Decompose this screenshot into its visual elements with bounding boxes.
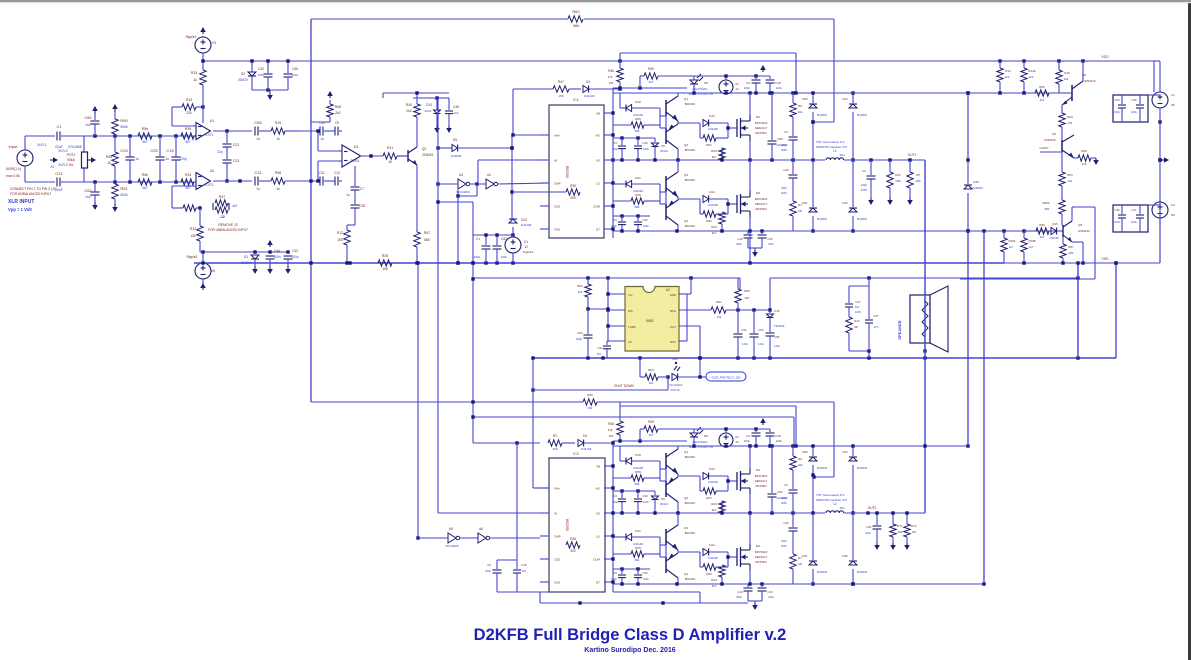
svg-text:1k: 1k	[276, 137, 280, 141]
svg-text:C62: C62	[84, 188, 92, 193]
svg-text:10n: 10n	[522, 569, 527, 573]
svg-text:2w: 2w	[69, 163, 74, 167]
capacitor C19s top	[736, 231, 752, 248]
wire out1	[844, 153, 925, 162]
svg-text:D15: D15	[774, 309, 780, 313]
wire x533 col	[531, 356, 549, 488]
svg-text:4k7: 4k7	[185, 140, 191, 144]
svg-text:100n: 100n	[744, 439, 751, 443]
svg-text:BD140C: BD140C	[685, 577, 696, 581]
wire rail88 top	[613, 86, 687, 89]
svg-text:40k: 40k	[578, 290, 583, 294]
svg-text:1N4148: 1N4148	[1049, 236, 1059, 240]
svg-text:BD139C: BD139C	[685, 531, 696, 535]
svg-text:IRFP4020: IRFP4020	[755, 474, 768, 478]
svg-text:R41: R41	[895, 173, 901, 177]
svg-text:R33: R33	[191, 71, 197, 75]
wire from input to U3	[300, 130, 318, 132]
svg-text:Q4: Q4	[684, 219, 688, 223]
svg-text:68k: 68k	[635, 129, 640, 133]
resistor R47 box	[208, 195, 248, 232]
wire rail93 right	[834, 91, 1063, 94]
wire Q1Q2 join bot	[660, 446, 700, 513]
svg-text:R5: R5	[916, 173, 920, 177]
svg-text:D8: D8	[704, 434, 708, 438]
resistor R12	[337, 225, 355, 263]
resistor R19	[259, 121, 300, 141]
resistor R72f	[904, 511, 917, 550]
svg-text:1N4148: 1N4148	[708, 480, 718, 484]
svg-text:C25: C25	[150, 148, 158, 153]
svg-text:U2: U2	[210, 169, 215, 173]
wire rail 252	[200, 250, 290, 253]
diode D31s bot	[613, 529, 660, 546]
svg-text:1k: 1k	[388, 160, 392, 164]
svg-text:150: 150	[337, 238, 343, 242]
resistor R33	[191, 61, 206, 123]
svg-text:C31: C31	[254, 170, 262, 175]
resistor R71f	[890, 511, 903, 550]
svg-text:2N3904C: 2N3904C	[1044, 138, 1056, 142]
capacitor C3s bot	[612, 491, 626, 513]
svg-text:R19: R19	[275, 121, 281, 125]
svg-text:D1: D1	[244, 255, 248, 259]
svg-text:10u: 10u	[855, 305, 860, 309]
caps C22 C23	[217, 131, 239, 183]
capacitor C4s top	[781, 130, 798, 160]
svg-text:C55: C55	[775, 335, 780, 339]
svg-text:MUR460: MUR460	[857, 113, 868, 117]
transistor Q2 pnp top	[666, 124, 695, 152]
svg-text:F2: F2	[1171, 203, 1175, 207]
resistor R61c	[679, 300, 772, 319]
capacitor C5s bot	[611, 569, 626, 584]
svg-text:4k7: 4k7	[712, 508, 717, 512]
svg-text:C30: C30	[642, 571, 648, 575]
svg-text:400u: 400u	[736, 595, 742, 599]
wire C21 right	[61, 168, 84, 182]
resistor R44s bot	[711, 565, 725, 588]
svg-text:FOR UNBALANCED INPUT: FOR UNBALANCED INPUT	[208, 228, 248, 232]
svg-text:TRIG: TRIG	[669, 309, 676, 313]
resistor R46 mid	[106, 136, 118, 182]
source XLR input	[6, 136, 33, 182]
svg-text:C49: C49	[642, 494, 648, 498]
svg-text:R6: R6	[798, 104, 802, 108]
ic U5 IRS2092 bot	[549, 452, 605, 592]
diode D16s bot	[620, 446, 660, 470]
svg-text:V2: V2	[735, 82, 739, 86]
svg-text:C19: C19	[737, 590, 743, 594]
svg-text:1u: 1u	[346, 193, 350, 197]
svg-text:U3: U3	[354, 145, 359, 149]
wire x473 corner	[471, 235, 794, 446]
svg-text:43k: 43k	[1068, 121, 1073, 125]
caps C7 C28 fb	[346, 166, 365, 225]
svg-text:IRFP4020: IRFP4020	[755, 121, 768, 125]
svg-text:300: 300	[570, 549, 576, 553]
led D8 bootstrap top	[689, 74, 713, 96]
svg-text:47k: 47k	[608, 428, 613, 432]
source V2s bot	[719, 429, 739, 447]
svg-text:IRFP4020: IRFP4020	[755, 197, 768, 201]
svg-text:FOR UNBALANCED INPUT: FOR UNBALANCED INPUT	[10, 192, 51, 196]
wire gate M2 bot	[726, 552, 737, 567]
svg-text:CSD: CSD	[554, 205, 561, 209]
capacitor C25	[150, 136, 169, 182]
svg-text:VB: VB	[596, 465, 600, 469]
svg-text:1u: 1u	[135, 157, 139, 161]
capacitor C60	[84, 106, 99, 136]
op-amp U1a	[194, 119, 214, 140]
svg-text:12: 12	[524, 245, 528, 249]
ic U4 left pin VSS	[540, 228, 560, 232]
svg-text:MUR460: MUR460	[857, 466, 868, 470]
svg-text:500k: 500k	[120, 125, 128, 129]
svg-text:C57: C57	[873, 314, 879, 318]
svg-text:6R8/2706 (newbie) 4h7: 6R8/2706 (newbie) 4h7	[816, 498, 848, 502]
svg-text:R14A: R14A	[1028, 69, 1036, 73]
ic U5 left pin VAA	[540, 487, 560, 491]
op-amp U1b	[196, 169, 214, 190]
svg-text:C15: C15	[166, 148, 174, 153]
diode D14s top	[703, 190, 728, 207]
svg-text:CSD: CSD	[554, 558, 561, 562]
svg-text:100n: 100n	[258, 73, 265, 77]
wire x418 down	[416, 261, 419, 539]
wire x796 drop	[618, 53, 796, 93]
feedback loop b	[172, 186, 202, 211]
capacitor C43	[284, 249, 299, 274]
mosfet M1 top	[737, 115, 768, 141]
svg-text:D43: D43	[672, 357, 678, 361]
resistor R50r	[1035, 85, 1049, 102]
svg-text:RST: RST	[670, 340, 676, 344]
resistor R64c	[640, 358, 670, 385]
svg-text:D50: D50	[802, 97, 808, 101]
svg-text:C23: C23	[233, 159, 239, 163]
svg-text:C3: C3	[613, 141, 617, 145]
wire rail93 bot	[613, 444, 853, 447]
svg-text:20dV: 20dV	[424, 109, 431, 113]
diode D16s top	[620, 93, 660, 117]
svg-text:220n: 220n	[861, 183, 868, 187]
svg-text:V2: V2	[735, 435, 739, 439]
resistor R12sp	[846, 317, 860, 351]
svg-text:D12: D12	[521, 218, 527, 222]
source V2s top	[719, 76, 739, 94]
svg-text:10n: 10n	[597, 352, 602, 356]
svg-text:SPEAKER: SPEAKER	[897, 320, 902, 339]
svg-text:2N5401: 2N5401	[422, 153, 433, 157]
svg-text:680: 680	[424, 238, 430, 242]
svg-text:OUT1: OUT1	[908, 153, 917, 157]
svg-text:D4: D4	[586, 80, 590, 84]
svg-text:R65: R65	[587, 393, 593, 397]
svg-text:220n: 220n	[781, 539, 787, 543]
source F1	[1148, 61, 1175, 124]
resistor R61r	[1059, 172, 1073, 200]
diode column x813 bot	[802, 444, 827, 585]
svg-text:R67: R67	[424, 231, 430, 235]
svg-text:4k7: 4k7	[1009, 245, 1014, 249]
svg-text:R47: R47	[219, 195, 225, 199]
svg-text:68k: 68k	[635, 482, 640, 486]
svg-text:C44: C44	[274, 249, 280, 253]
svg-text:VSS: VSS	[554, 228, 560, 232]
svg-text:8R: 8R	[854, 325, 857, 329]
capacitor C52s bot	[768, 446, 788, 513]
svg-text:R16: R16	[1064, 71, 1070, 75]
capacitor C13 out	[861, 160, 876, 205]
transistor Q4 pnp top	[666, 200, 695, 228]
resistor R59	[1074, 149, 1099, 166]
capacitor C30s bot	[634, 569, 649, 584]
svg-text:CMP: CMP	[554, 535, 561, 539]
resistor R52s bot	[700, 552, 728, 576]
svg-text:400V: 400V	[781, 501, 787, 505]
resistor R56s bot	[613, 470, 660, 486]
svg-text:R20A: R20A	[1009, 239, 1016, 243]
svg-text:DEFAULT: DEFAULT	[755, 126, 768, 130]
wire left tall vertical	[310, 19, 312, 402]
wire rail90	[252, 88, 288, 91]
svg-text:D44: D44	[842, 450, 848, 454]
svg-text:R45: R45	[635, 193, 641, 197]
svg-text:R55: R55	[744, 289, 750, 293]
svg-text:2W: 2W	[609, 434, 614, 438]
wire y138 stub top	[613, 136, 655, 139]
svg-text:BD139C: BD139C	[685, 455, 696, 459]
speaker SP1	[897, 286, 948, 353]
ic U4 left pin VAA	[540, 134, 560, 138]
wire row160 left	[478, 160, 549, 184]
svg-text:1u: 1u	[256, 187, 260, 191]
svg-text:C46: C46	[783, 521, 789, 525]
svg-text:D6: D6	[661, 144, 665, 148]
svg-text:M2: M2	[756, 191, 760, 195]
svg-text:R31: R31	[387, 146, 393, 150]
inverter A6	[478, 527, 540, 543]
svg-text:MC14069: MC14069	[445, 544, 458, 548]
ic U5 right pin DT	[596, 581, 613, 585]
svg-text:C20: C20	[767, 237, 773, 241]
capacitor C52c	[734, 310, 749, 358]
transistor Q8 npn	[1062, 221, 1090, 242]
ic U5 left pin IN	[540, 512, 557, 516]
svg-text:6R8/2706 (newbie) 4h7: 6R8/2706 (newbie) 4h7	[816, 145, 848, 149]
wire rail278 A	[473, 276, 740, 289]
svg-text:C52: C52	[777, 490, 783, 494]
svg-text:220n: 220n	[768, 242, 774, 246]
svg-text:4k7: 4k7	[649, 80, 654, 84]
svg-text:F1: F1	[1171, 93, 1175, 97]
svg-text:Q1: Q1	[684, 450, 688, 454]
svg-text:C47: C47	[855, 300, 861, 304]
svg-text:R64: R64	[648, 368, 654, 372]
svg-text:IRFP064: IRFP064	[755, 484, 766, 488]
svg-text:140p: 140p	[774, 344, 780, 348]
svg-text:D31: D31	[635, 176, 641, 180]
resistor R6s bot	[790, 446, 803, 489]
wire rail160 bot	[613, 511, 825, 514]
mosfet M1 bot	[737, 468, 768, 494]
svg-text:A6: A6	[479, 527, 483, 531]
svg-text:100V: 100V	[855, 310, 861, 314]
capacitor C4s bot	[781, 483, 798, 513]
power arrow caps top	[760, 65, 766, 72]
op-amp U3	[338, 145, 361, 167]
ic U4 left pin CMP	[540, 182, 561, 186]
svg-text:220n: 220n	[776, 86, 783, 90]
svg-text:VAA: VAA	[554, 134, 560, 138]
svg-text:R52: R52	[706, 572, 712, 576]
svg-text:ZD123: ZD123	[660, 502, 668, 506]
svg-text:36k: 36k	[573, 23, 579, 28]
wire x512 column	[510, 135, 566, 219]
capacitor C30s top	[634, 216, 649, 231]
wire 555 gnd pin	[679, 278, 691, 341]
wire x968 bottom col	[967, 231, 969, 446]
svg-text:OUT2: OUT2	[868, 506, 877, 510]
opto led D41	[669, 357, 703, 392]
wire U3 out	[360, 154, 383, 157]
svg-text:D5: D5	[453, 138, 457, 142]
svg-text:M1: M1	[756, 468, 760, 472]
svg-text:IRS2092: IRS2092	[565, 166, 569, 179]
wire rail278 B	[770, 276, 1080, 310]
svg-text:D31: D31	[635, 529, 641, 533]
svg-text:300: 300	[570, 196, 576, 200]
svg-text:12: 12	[735, 440, 739, 444]
svg-text:4k7: 4k7	[1029, 245, 1034, 249]
svg-text:VS: VS	[596, 512, 600, 516]
resistor R43s top	[711, 148, 725, 160]
svg-text:1N4148: 1N4148	[708, 556, 718, 560]
ic U5 left pin CMP	[540, 535, 561, 539]
source V5 bottom	[187, 252, 216, 290]
resistor R67	[414, 231, 430, 263]
diode D4b	[578, 434, 615, 451]
svg-text:C43: C43	[292, 249, 298, 253]
cap C48 cluster	[413, 96, 459, 133]
ic U2 555 yellow	[625, 287, 679, 352]
svg-text:10k: 10k	[190, 234, 196, 238]
svg-text:R6: R6	[798, 457, 802, 461]
wire ic2 col x613	[611, 441, 614, 592]
capacitor C57sp	[865, 286, 879, 351]
svg-text:DIS: DIS	[628, 309, 633, 313]
svg-text:D15: D15	[1052, 222, 1058, 226]
wire gate M1 bot	[726, 476, 737, 491]
svg-text:R46: R46	[106, 155, 112, 159]
svg-text:C5: C5	[613, 571, 617, 575]
svg-text:C36: C36	[1131, 98, 1137, 102]
resistor R5b	[138, 127, 152, 144]
capacitor C53c	[750, 310, 765, 358]
svg-text:R20B: R20B	[1029, 239, 1036, 243]
wire M2 drain top	[749, 160, 751, 191]
svg-text:R59: R59	[1081, 149, 1087, 153]
svg-text:1n2: 1n2	[85, 123, 91, 127]
wire inv feedback	[456, 184, 477, 265]
capacitor C11m	[319, 171, 325, 186]
wire Q8 collector loop	[960, 207, 1095, 279]
capacitor C49s top	[634, 138, 649, 160]
svg-text:XLR-1: XLR-1	[37, 143, 47, 147]
wire rail231 top	[613, 229, 853, 232]
svg-text:Q2: Q2	[422, 147, 427, 151]
svg-text:22p: 22p	[453, 111, 458, 115]
svg-text:Ripple1: Ripple1	[186, 35, 197, 39]
wire F1 down	[1158, 122, 1161, 263]
svg-text:C2: C2	[746, 434, 750, 438]
ic U4 right pin HO	[596, 134, 614, 138]
svg-text:D13: D13	[426, 103, 432, 107]
resistor R31	[383, 146, 397, 164]
resistor R26	[378, 254, 392, 271]
svg-text:REMOVE J2: REMOVE J2	[218, 223, 237, 227]
resistor R35b on ic	[566, 537, 580, 553]
svg-text:100p: 100p	[474, 255, 481, 259]
svg-text:1N4148: 1N4148	[521, 223, 532, 227]
svg-text:BD139C: BD139C	[685, 102, 696, 106]
resistor R16	[1056, 61, 1070, 93]
resistor R50	[112, 104, 129, 136]
wire top bus	[311, 18, 834, 20]
svg-text:VB: VB	[596, 112, 600, 116]
capacitor C46s top	[781, 160, 798, 201]
svg-text:220n: 220n	[865, 531, 871, 535]
resistor R34i	[181, 173, 194, 190]
svg-text:IC1: IC1	[573, 98, 578, 102]
capacitor C31	[254, 170, 262, 191]
capacitor C62	[493, 235, 508, 263]
svg-text:R14: R14	[1005, 69, 1011, 73]
svg-text:OC-MOAC: OC-MOAC	[669, 383, 683, 387]
resistor R7s top	[790, 201, 803, 231]
wire x1078	[1076, 261, 1079, 358]
wire Q3Q4 join top	[660, 160, 700, 231]
svg-text:VDD: VDD	[1101, 55, 1109, 59]
wire opamp2 out	[213, 179, 252, 182]
svg-text:220u: 220u	[1131, 110, 1137, 114]
source V3 top	[186, 27, 217, 61]
svg-text:C1: C1	[476, 237, 480, 241]
svg-text:100p: 100p	[485, 569, 491, 573]
svg-text:D46: D46	[973, 180, 979, 184]
svg-text:BD140C: BD140C	[685, 224, 696, 228]
svg-text:36k: 36k	[588, 406, 593, 410]
wire M1 source top	[749, 141, 751, 160]
svg-text:C28: C28	[359, 204, 365, 208]
wire gate M2 top	[726, 199, 737, 214]
svg-text:10k: 10k	[798, 463, 803, 467]
svg-text:C51: C51	[577, 331, 583, 335]
svg-text:C49: C49	[642, 141, 648, 145]
svg-text:6R8: 6R8	[895, 179, 901, 183]
ic U5 left pin CSD	[540, 558, 561, 562]
wire x473	[436, 200, 473, 235]
cap box top	[1113, 95, 1148, 122]
capacitor C2s bot	[744, 429, 761, 446]
capacitor C15	[166, 136, 187, 182]
svg-text:CELP/MAC: CELP/MAC	[692, 440, 708, 444]
svg-text:1N4848: 1N4848	[451, 154, 462, 158]
svg-text:R5b: R5b	[142, 127, 148, 131]
wire vdd bus	[203, 60, 1154, 62]
ic U4 IRS2092 top	[549, 98, 604, 238]
